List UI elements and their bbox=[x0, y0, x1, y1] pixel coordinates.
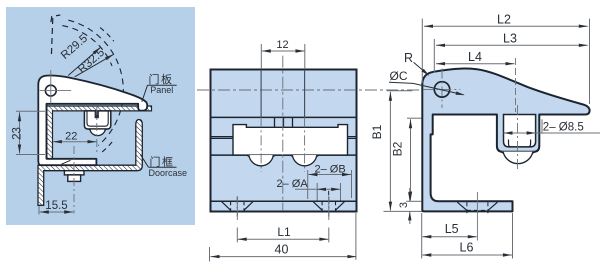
svg-text:2– ØA: 2– ØA bbox=[277, 178, 309, 190]
svg-text:B2: B2 bbox=[391, 141, 405, 156]
svg-text:L3: L3 bbox=[503, 31, 517, 45]
svg-text:2– ØB: 2– ØB bbox=[315, 163, 346, 175]
svg-text:22: 22 bbox=[65, 131, 77, 143]
svg-text:L6: L6 bbox=[460, 241, 474, 255]
svg-text:R: R bbox=[404, 51, 413, 65]
svg-text:L5: L5 bbox=[445, 222, 459, 236]
svg-text:Doorcase: Doorcase bbox=[149, 168, 188, 178]
svg-text:23: 23 bbox=[11, 127, 23, 140]
svg-text:15.5: 15.5 bbox=[45, 200, 67, 212]
svg-text:L2: L2 bbox=[497, 13, 511, 27]
svg-text:ØC: ØC bbox=[390, 69, 408, 83]
svg-text:12: 12 bbox=[276, 39, 288, 51]
svg-text:门框: 门框 bbox=[150, 155, 175, 169]
svg-text:L1: L1 bbox=[277, 225, 291, 239]
svg-text:40: 40 bbox=[275, 243, 289, 257]
svg-text:门板: 门板 bbox=[149, 72, 174, 86]
svg-text:2– Ø8.5: 2– Ø8.5 bbox=[543, 122, 584, 134]
svg-text:3: 3 bbox=[398, 202, 410, 208]
svg-text:Panel: Panel bbox=[150, 85, 173, 95]
svg-text:B1: B1 bbox=[370, 124, 384, 139]
svg-text:L4: L4 bbox=[468, 50, 482, 64]
